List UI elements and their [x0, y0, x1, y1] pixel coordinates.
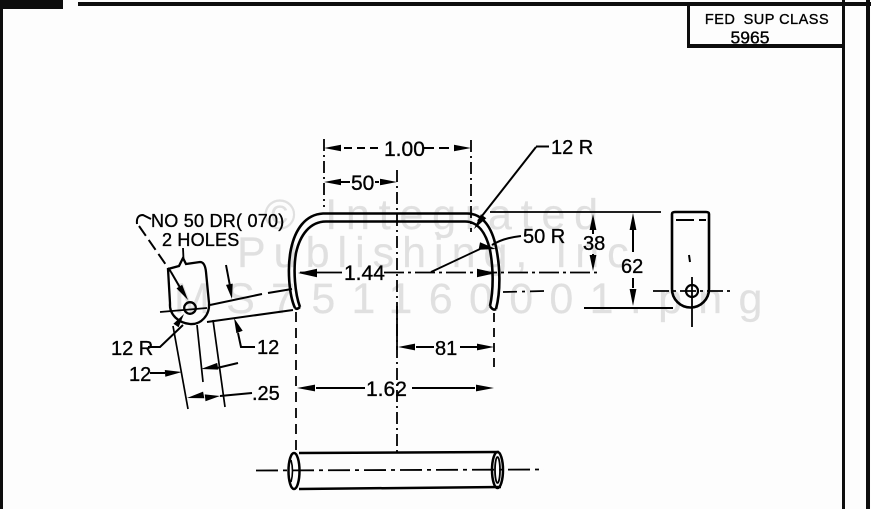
- svg-text:12: 12: [129, 364, 151, 386]
- svg-text:12: 12: [257, 337, 279, 359]
- svg-text:5965: 5965: [731, 28, 770, 48]
- svg-text:1.62: 1.62: [366, 378, 407, 401]
- svg-text:38: 38: [583, 233, 605, 255]
- svg-text:1.00: 1.00: [384, 138, 425, 161]
- svg-text:2 HOLES: 2 HOLES: [162, 230, 239, 250]
- svg-text:12 R: 12 R: [111, 338, 153, 360]
- svg-text:.25: .25: [252, 383, 280, 405]
- svg-text:62: 62: [621, 256, 643, 278]
- svg-text:NO 50 DR( 070): NO 50 DR( 070): [151, 211, 285, 231]
- svg-text:1.44: 1.44: [344, 262, 385, 285]
- svg-text:50 R: 50 R: [523, 226, 565, 248]
- svg-text:12 R: 12 R: [551, 137, 593, 159]
- svg-text:50: 50: [351, 172, 374, 195]
- svg-text:FED SUP CLASS: FED SUP CLASS: [705, 12, 829, 28]
- svg-text:MS751160001.png: MS751160001.png: [174, 275, 779, 323]
- svg-text:81: 81: [435, 338, 457, 360]
